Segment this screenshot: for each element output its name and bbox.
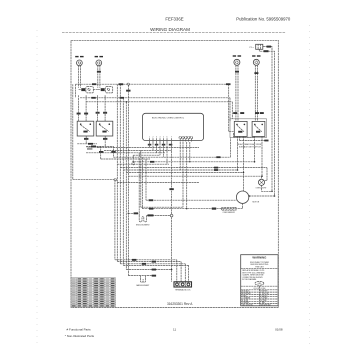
svg-text:1: 1: [149, 136, 150, 138]
svg-text:TERMINAL BLOCK: TERMINAL BLOCK: [175, 289, 191, 292]
svg-text:BAKE ELEMENT: BAKE ELEMENT: [136, 284, 149, 287]
svg-text:7: 7: [171, 136, 172, 138]
svg-text:R RED: R RED: [242, 295, 248, 297]
svg-text:IN THE DIAGRAM.: IN THE DIAGRAM.: [242, 278, 257, 281]
svg-text:# Functional Parts: # Functional Parts: [67, 327, 92, 331]
svg-text:W/B WHT/BLK: W/B WHT/BLK: [260, 305, 271, 307]
svg-text:WIRING DIAGRAM: WIRING DIAGRAM: [150, 27, 190, 32]
svg-text:* Non-Illustrated Parts: * Non-Illustrated Parts: [65, 334, 95, 338]
svg-text:Y YELLOW: Y YELLOW: [260, 293, 269, 295]
svg-text:01/08: 01/08: [275, 327, 283, 331]
svg-text:BR BROWN: BR BROWN: [242, 293, 252, 295]
svg-text:BROIL ELEMENT: BROIL ELEMENT: [136, 225, 149, 227]
svg-text:ELECTRONIC OVEN CONTROL: ELECTRONIC OVEN CONTROL: [152, 118, 185, 120]
svg-text:OVEN SENSOR: OVEN SENSOR: [223, 212, 236, 214]
svg-text:4: 4: [160, 136, 161, 138]
svg-text:V VIOLET: V VIOLET: [260, 295, 267, 297]
svg-text:316253301 Rev A: 316253301 Rev A: [167, 302, 193, 306]
svg-text:WARNING: WARNING: [252, 256, 267, 260]
svg-text:5: 5: [163, 136, 164, 138]
svg-text:2: 2: [153, 136, 154, 138]
svg-text:Publication No. 5995509970: Publication No. 5995509970: [236, 16, 291, 21]
svg-text:MOTOR: MOTOR: [253, 202, 260, 204]
svg-text:3: 3: [156, 136, 157, 138]
svg-text:GN/Y GRN/YEL: GN/Y GRN/YEL: [242, 305, 253, 307]
svg-text:G GREEN: G GREEN: [242, 302, 250, 304]
svg-text:FEF336E: FEF336E: [165, 16, 183, 21]
svg-text:SURFACE UNIT SWITCH: SURFACE UNIT SWITCH: [239, 146, 261, 149]
svg-text:6: 6: [167, 136, 168, 138]
svg-text:11: 11: [173, 327, 176, 331]
svg-text:BL BLUE: BL BLUE: [242, 300, 249, 302]
svg-text:PK PINK: PK PINK: [260, 300, 267, 302]
svg-text:W WHITE: W WHITE: [260, 291, 267, 293]
